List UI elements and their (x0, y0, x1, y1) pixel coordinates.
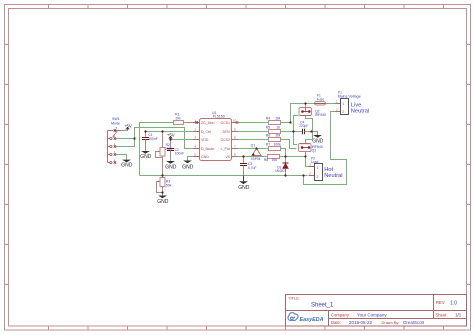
potentiometer R2 (156, 132, 173, 176)
svg-text:ZC_Mon: ZC_Mon (201, 121, 214, 125)
wire SW1 pos3 to GND (116, 155, 127, 160)
svg-text:1: 1 (316, 166, 318, 170)
svg-text:Q3: Q3 (312, 149, 317, 153)
resistor R5 (266, 126, 281, 134)
transistor Q2 (299, 104, 326, 118)
svg-text:2: 2 (316, 175, 318, 179)
wire L_Par row (238, 148, 269, 150)
resistor R7 (266, 143, 281, 151)
wire live vertical (291, 104, 306, 123)
svg-text:GND: GND (312, 138, 324, 144)
ground flag (C2) (165, 161, 177, 170)
svg-text:GND: GND (201, 155, 209, 159)
svg-text:1.0: 1.0 (450, 301, 457, 307)
svg-text:GND: GND (157, 199, 169, 205)
svg-text:Mains Voltage: Mains Voltage (338, 94, 361, 98)
junction dots (133, 102, 312, 193)
fuse F1 (306, 94, 336, 106)
power flag +5V (VDD) (167, 133, 175, 140)
svg-text:1: 1 (342, 102, 344, 106)
svg-text:2M: 2M (276, 134, 281, 138)
svg-text:50k: 50k (166, 183, 172, 187)
svg-text:+5V: +5V (167, 133, 175, 138)
svg-text:4.7uF: 4.7uF (248, 166, 257, 170)
wire common node to GND stub (312, 132, 318, 136)
svg-text:D_Mode: D_Mode (201, 147, 214, 151)
wire R4 to live node (281, 122, 291, 124)
title block text (288, 296, 462, 326)
svg-text:Mode: Mode (111, 121, 120, 125)
switch SW1 (108, 117, 122, 164)
resistor R6 (266, 134, 281, 142)
wire DRV to gates junction and C4 (281, 131, 303, 133)
svg-text:GND: GND (121, 163, 133, 169)
svg-text:GreatScott: GreatScott (403, 320, 425, 325)
potentiometer R3 (157, 176, 172, 196)
wire OCS2 row (238, 139, 269, 141)
svg-text:FL5150: FL5150 (213, 115, 225, 119)
transistor Q1 (251, 144, 262, 161)
svg-text:2: 2 (342, 110, 344, 114)
svg-text:1N4007: 1N4007 (275, 169, 286, 173)
resistor R4 (266, 117, 281, 125)
wire D_Ctrl row (146, 131, 194, 133)
svg-text:TITLE:: TITLE: (288, 296, 300, 301)
power flag +5V (switch) (124, 123, 132, 130)
wire gates vertical (294, 116, 299, 145)
svg-text:Sheet:: Sheet: (436, 313, 448, 318)
capacitor C4 (299, 120, 311, 134)
svg-text:VDD: VDD (201, 138, 209, 142)
ground flag (C1) (140, 151, 152, 160)
svg-text:Your Company: Your Company (357, 313, 387, 318)
svg-text:2M: 2M (276, 117, 281, 121)
svg-text:2019-05-22: 2019-05-22 (349, 320, 373, 325)
ground flag (C3) (238, 176, 250, 191)
svg-text:Q1: Q1 (251, 144, 256, 148)
resistor R8 (264, 155, 286, 162)
svg-text:D_Ctrl: D_Ctrl (201, 130, 211, 134)
svg-text:R6: R6 (266, 134, 270, 138)
wire R6 to Q3 gate region (281, 140, 297, 149)
svg-text:L_Par: L_Par (221, 147, 231, 151)
wire U1 GND pin to ground (188, 157, 194, 161)
svg-text:REV: REV (436, 300, 445, 305)
ground flag (U1 GND) (182, 161, 194, 171)
svg-text:1k: 1k (277, 126, 281, 130)
svg-text:OCS1: OCS1 (220, 121, 230, 125)
wire SW1 pos2 to D_Mode (overhead route) (116, 128, 194, 149)
svg-text:GND: GND (165, 164, 177, 170)
svg-text:R4: R4 (266, 117, 270, 121)
svg-text:220pF: 220pF (299, 124, 308, 128)
svg-text:Drawn By:: Drawn By: (382, 320, 400, 325)
connector P1 (336, 91, 361, 115)
svg-text:R8: R8 (264, 158, 268, 162)
title block (286, 295, 467, 327)
connector P2 (309, 156, 323, 180)
svg-text:OCS2: OCS2 (220, 138, 230, 142)
wire VS row (238, 156, 268, 158)
svg-text:Sheet_1: Sheet_1 (311, 303, 334, 309)
svg-text:EasyEDA: EasyEDA (300, 317, 324, 323)
wire SW1 pos1 to bus (116, 138, 135, 140)
ground flag (common source) (312, 135, 324, 144)
wire GND rail horizontal (140, 175, 308, 177)
svg-text:100nF: 100nF (148, 137, 158, 141)
svg-text:Company:: Company: (331, 313, 350, 318)
EasyEDA logo (288, 313, 324, 323)
capacitor C1 (142, 132, 158, 152)
svg-text:DRV: DRV (223, 130, 231, 134)
svg-text:100nF: 100nF (175, 152, 185, 156)
capacitor C2 (167, 140, 184, 162)
svg-text:+5V: +5V (124, 123, 132, 128)
svg-text:VS: VS (225, 155, 230, 159)
wire Q2 source to common node (306, 116, 313, 132)
wire common node to Q3 top (306, 132, 313, 144)
wire R7 to VS node (281, 149, 286, 157)
wire OCS1 row (238, 122, 269, 124)
svg-text:GND: GND (140, 154, 152, 160)
svg-text:R5: R5 (266, 126, 270, 130)
svg-text:Neutral: Neutral (351, 108, 369, 114)
svg-text:X0P04: X0P04 (251, 157, 261, 161)
wire VDD row (171, 139, 194, 141)
svg-text:Neutral: Neutral (324, 173, 342, 179)
wire ZC net (R1 left to GND rail vertical) (140, 123, 174, 176)
svg-text:R7: R7 (266, 143, 270, 147)
svg-text:GND: GND (182, 164, 194, 170)
ground flag (switch) (121, 160, 133, 169)
svg-text:Load: Load (311, 160, 319, 164)
wire VS row right (286, 156, 306, 158)
resistor R1 (174, 112, 194, 124)
svg-text:1/1: 1/1 (455, 313, 462, 318)
svg-text:10k: 10k (272, 158, 278, 162)
svg-text:100k: 100k (274, 143, 282, 147)
ground flag (R3) (157, 196, 169, 205)
wire Q3 bottom to P2 pin1 (306, 157, 315, 167)
svg-text:2M: 2M (176, 116, 181, 120)
svg-text:IRF840: IRF840 (315, 113, 326, 117)
transistor Q3 (299, 144, 323, 157)
wire SW1 common to +5V (121, 130, 128, 132)
capacitor C3 (240, 157, 256, 176)
svg-text:GND: GND (238, 185, 250, 191)
svg-text:Date:: Date: (331, 320, 341, 325)
diode D1 (275, 157, 289, 176)
IC U1 FL5150 (194, 111, 239, 160)
svg-text:Fuse: Fuse (317, 97, 325, 101)
wire neutral loop (304, 112, 347, 185)
wire DRV row (238, 131, 269, 133)
